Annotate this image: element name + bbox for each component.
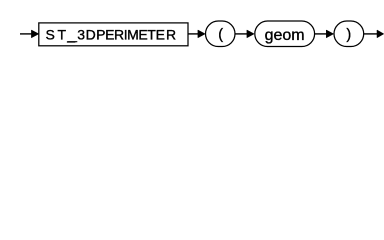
wire: open-paren to geom	[235, 33, 248, 35]
arrowhead: exit arrow	[377, 30, 384, 38]
arrowhead: into open-paren	[198, 30, 205, 38]
terminal circle close-paren	[334, 21, 364, 47]
arrowhead: into close-paren	[326, 30, 333, 38]
wire: entry line	[20, 33, 34, 35]
svg-text:ST_3DPERIMETER: ST_3DPERIMETER	[46, 27, 177, 43]
wire: geom to close-paren	[315, 33, 327, 35]
underscore widening bar	[67, 41, 77, 42]
svg-text:(: (	[218, 27, 223, 43]
keyword box ST_3DPERIMETER	[39, 23, 188, 46]
svg-text:geom: geom	[265, 27, 305, 44]
variable oval geom	[255, 21, 315, 47]
wire: box to open-paren	[188, 33, 199, 35]
arrowhead: entry arrow into keyword box	[31, 30, 38, 38]
terminal circle open-paren	[206, 21, 236, 47]
wire: exit line	[364, 33, 378, 35]
arrowhead: into geom oval	[247, 30, 254, 38]
svg-text:): )	[346, 27, 351, 43]
